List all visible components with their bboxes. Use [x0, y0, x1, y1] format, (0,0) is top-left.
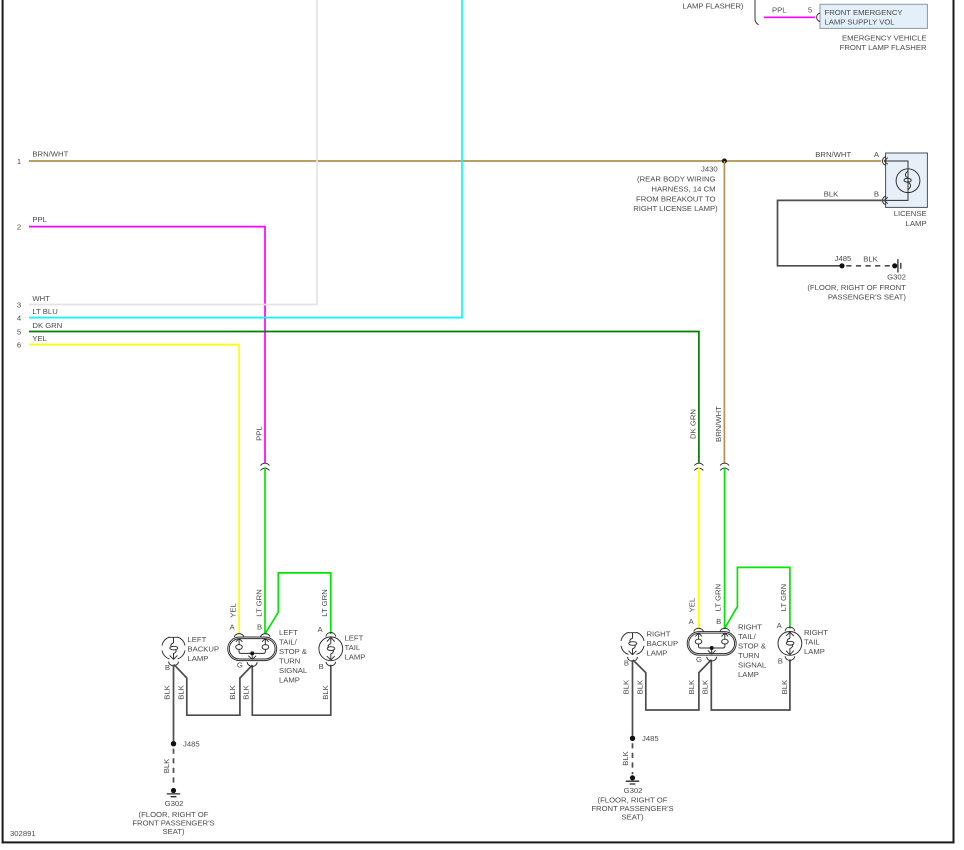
svg-text:STOP &: STOP &	[279, 647, 307, 656]
svg-text:B: B	[257, 623, 262, 632]
svg-text:B: B	[165, 663, 170, 672]
svg-text:LEFT: LEFT	[188, 635, 207, 644]
svg-text:6: 6	[17, 340, 21, 349]
svg-text:YEL: YEL	[229, 603, 238, 618]
wire BLK backup lamp to J485	[173, 665, 175, 742]
wire BLK right backup lamp to stop lamp ground	[633, 660, 711, 710]
svg-text:WHT: WHT	[32, 294, 50, 303]
svg-text:BRN/WHT: BRN/WHT	[815, 150, 851, 159]
wire 2 PPL horizontal and vertical	[29, 227, 265, 463]
wire LT GRN right branch to tail lamp	[725, 567, 790, 628]
splice connector DK GRN to YEL	[694, 463, 703, 470]
wire 1 BRN/WHT horizontal	[29, 160, 881, 162]
node J485 left dot	[171, 741, 176, 746]
license lamp bulb	[896, 169, 920, 193]
svg-text:SIGNAL: SIGNAL	[738, 661, 767, 670]
svg-text:BACKUP: BACKUP	[647, 639, 679, 648]
wire BLK stop lamp ground to tail lamp	[252, 665, 330, 715]
wire BLK from license lamp pin B	[778, 200, 886, 265]
svg-text:J485: J485	[183, 740, 200, 749]
svg-text:SEAT): SEAT)	[621, 813, 644, 822]
svg-text:3: 3	[17, 300, 21, 309]
svg-text:LEFT: LEFT	[345, 634, 364, 643]
svg-text:DK GRN: DK GRN	[32, 321, 62, 330]
svg-text:TAIL: TAIL	[804, 638, 820, 647]
svg-text:LAMP: LAMP	[804, 647, 825, 656]
svg-text:BLK: BLK	[622, 679, 631, 694]
connector bracket (emergency vehicle flasher boundary)	[755, 0, 759, 25]
svg-text:LT GRN: LT GRN	[255, 589, 264, 616]
wire BLK right stop lamp ground to tail lamp	[711, 659, 790, 710]
svg-text:PASSENGER'S SEAT): PASSENGER'S SEAT)	[828, 292, 907, 301]
svg-text:LT GRN: LT GRN	[320, 589, 329, 616]
svg-text:LAMP FLASHER): LAMP FLASHER)	[683, 1, 744, 10]
svg-text:SEAT): SEAT)	[162, 827, 185, 836]
lamp LEFT TAIL STOP TURN SIGNAL LAMP	[228, 634, 277, 667]
svg-text:A: A	[777, 621, 783, 630]
svg-text:TURN: TURN	[738, 651, 759, 660]
svg-text:YEL: YEL	[32, 334, 47, 343]
splice connector BRN/WHT to LT GRN	[720, 463, 729, 470]
svg-text:G302: G302	[887, 272, 906, 281]
svg-text:BRN/WHT: BRN/WHT	[32, 149, 68, 158]
svg-text:LAMP: LAMP	[279, 676, 300, 685]
svg-text:BLK: BLK	[228, 684, 237, 699]
svg-text:G: G	[237, 661, 243, 670]
svg-text:B: B	[716, 617, 721, 626]
license lamp internal circuit	[884, 161, 908, 200]
svg-text:LICENSE: LICENSE	[894, 209, 927, 218]
svg-text:G302: G302	[624, 786, 643, 795]
wire 5 DK GRN horizontal and vertical down	[29, 332, 699, 463]
svg-text:TAIL/: TAIL/	[738, 632, 757, 641]
svg-text:B: B	[624, 658, 629, 667]
ground G302 license	[892, 263, 897, 268]
wire PPL (front emergency lamp supply)	[764, 16, 815, 18]
svg-text:4: 4	[17, 313, 22, 322]
svg-text:TAIL/: TAIL/	[279, 638, 298, 647]
wire BLK backup lamp to stop lamp ground	[174, 665, 252, 716]
lamp RIGHT TAIL STOP TURN SIGNAL LAMP	[687, 628, 736, 661]
svg-text:1: 1	[17, 157, 21, 166]
svg-text:BLK: BLK	[863, 255, 878, 264]
wire BLK dashed left to G302	[173, 749, 175, 786]
svg-text:LAMP: LAMP	[647, 648, 668, 657]
svg-text:STOP &: STOP &	[738, 642, 766, 651]
lamp RIGHT BACKUP LAMP	[621, 632, 644, 661]
ground G302 left	[171, 788, 176, 793]
svg-text:PPL: PPL	[255, 426, 264, 441]
svg-text:5: 5	[808, 6, 812, 15]
svg-text:BLK: BLK	[621, 750, 630, 765]
svg-text:J430: J430	[701, 164, 718, 173]
connector pin 5 (arc and arrow)	[817, 13, 820, 21]
svg-text:BLK: BLK	[162, 758, 171, 773]
wire 3 WHT horizontal and vertical up	[29, 0, 317, 305]
wire BLK dashed to G302	[846, 265, 891, 267]
svg-text:BLK: BLK	[824, 190, 839, 199]
svg-text:B: B	[319, 662, 324, 671]
svg-text:LT GRN: LT GRN	[779, 584, 788, 611]
node J430 junction dot	[722, 159, 727, 164]
wire 6 YEL horizontal and vertical down to left lamp	[29, 345, 239, 635]
svg-text:BLK: BLK	[241, 684, 250, 699]
ground G302 right	[630, 775, 635, 780]
svg-text:PPL: PPL	[772, 6, 787, 15]
lamp LEFT TAIL LAMP	[319, 633, 343, 666]
svg-text:TAIL: TAIL	[345, 643, 361, 652]
svg-text:LEFT: LEFT	[279, 628, 298, 637]
svg-text:BLK: BLK	[321, 684, 330, 699]
wire LT GRN right vertical	[724, 467, 726, 629]
svg-text:A: A	[689, 617, 695, 626]
node J485 dot license	[839, 263, 844, 268]
pin A connector arc and arrow	[882, 157, 887, 166]
svg-text:302891: 302891	[10, 829, 36, 838]
lamp RIGHT TAIL LAMP	[778, 627, 802, 660]
svg-text:TURN: TURN	[279, 657, 300, 666]
svg-text:2: 2	[17, 222, 21, 231]
lamp LEFT BACKUP LAMP	[162, 637, 185, 666]
wire BLK right backup lamp to J485	[632, 660, 634, 736]
svg-text:LAMP SUPPLY VOL: LAMP SUPPLY VOL	[825, 17, 896, 26]
svg-text:B: B	[778, 657, 783, 666]
wire 4 LT BLU horizontal and vertical up	[29, 0, 462, 318]
svg-text:FROM BREAKOUT TO: FROM BREAKOUT TO	[636, 194, 715, 203]
pin B connector arc and arrow	[882, 196, 887, 205]
svg-text:LAMP: LAMP	[906, 219, 927, 228]
box FRONT EMERGENCY LAMP SUPPLY VOL	[820, 4, 927, 28]
svg-text:A: A	[874, 150, 880, 159]
svg-text:RIGHT LICENSE LAMP): RIGHT LICENSE LAMP)	[633, 204, 718, 213]
svg-text:FRONT EMERGENCY: FRONT EMERGENCY	[825, 8, 903, 17]
svg-text:LAMP: LAMP	[738, 670, 759, 679]
svg-text:BRN/WHT: BRN/WHT	[714, 406, 723, 442]
svg-text:(REAR BODY WIRING: (REAR BODY WIRING	[637, 174, 715, 183]
svg-text:BACKUP: BACKUP	[188, 644, 220, 653]
svg-text:SIGNAL: SIGNAL	[279, 666, 308, 675]
svg-text:PPL: PPL	[32, 215, 47, 224]
svg-text:RIGHT: RIGHT	[647, 629, 671, 638]
svg-text:DK GRN: DK GRN	[688, 409, 697, 439]
wire BLK dashed right to G302	[632, 743, 634, 774]
svg-text:J485: J485	[642, 734, 659, 743]
svg-text:HARNESS, 14 CM: HARNESS, 14 CM	[651, 184, 715, 193]
lamp LICENSE LAMP box	[886, 153, 928, 207]
svg-text:BLK: BLK	[700, 679, 709, 694]
svg-text:A: A	[318, 625, 324, 634]
svg-text:RIGHT: RIGHT	[738, 623, 762, 632]
svg-text:LAMP: LAMP	[188, 654, 209, 663]
svg-text:(FLOOR, RIGHT OF FRONT: (FLOOR, RIGHT OF FRONT	[807, 283, 906, 292]
svg-text:LT BLU: LT BLU	[32, 307, 57, 316]
svg-text:FRONT LAMP FLASHER: FRONT LAMP FLASHER	[840, 43, 927, 52]
svg-text:LT GRN: LT GRN	[714, 584, 723, 611]
svg-text:BLK: BLK	[780, 679, 789, 694]
svg-text:BLK: BLK	[636, 679, 645, 694]
svg-text:BLK: BLK	[163, 684, 172, 699]
svg-text:BLK: BLK	[687, 679, 696, 694]
svg-text:A: A	[230, 623, 236, 632]
node J485 right dot	[630, 736, 635, 741]
svg-text:B: B	[874, 190, 879, 199]
wire BRN/WHT vertical from J430	[723, 161, 725, 463]
svg-text:BLK: BLK	[177, 684, 186, 699]
wire LT GRN left branch to tail lamp	[265, 573, 331, 634]
wire LT GRN left vertical	[264, 467, 266, 634]
svg-text:G: G	[696, 655, 702, 664]
splice connector PPL to LT GRN	[261, 463, 270, 470]
svg-text:J485: J485	[835, 254, 852, 263]
svg-text:EMERGENCY VEHICLE: EMERGENCY VEHICLE	[842, 33, 926, 42]
svg-text:YEL: YEL	[688, 597, 697, 612]
svg-text:RIGHT: RIGHT	[804, 628, 828, 637]
wire YEL right vertical	[698, 467, 700, 629]
svg-text:LAMP: LAMP	[345, 653, 366, 662]
svg-text:5: 5	[17, 327, 21, 336]
svg-text:G302: G302	[165, 799, 184, 808]
